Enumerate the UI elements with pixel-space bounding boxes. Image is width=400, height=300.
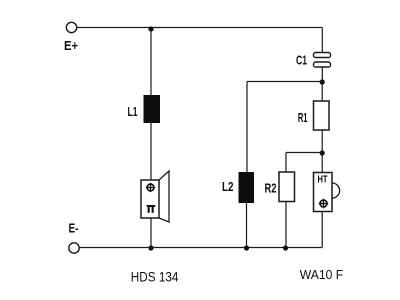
node junction R1-HT bbox=[320, 150, 325, 155]
svg-text:E-: E- bbox=[69, 223, 79, 236]
node junction L2 bottom bbox=[244, 245, 249, 250]
wire bottom rail bbox=[80, 247, 323, 249]
wire R2 bottom lead bbox=[285, 202, 287, 248]
terminal E- bbox=[69, 243, 79, 253]
wire node to R2 branch horizontal bbox=[286, 152, 322, 154]
woofer plus polarity mark bbox=[146, 183, 155, 192]
svg-text:C1: C1 bbox=[296, 54, 307, 68]
wire HT top lead bbox=[321, 153, 323, 173]
speaker tweeter HT body bbox=[314, 173, 333, 212]
wire L2 bottom lead bbox=[246, 203, 248, 248]
woofer pi mark bbox=[147, 205, 156, 213]
svg-text:L1: L1 bbox=[128, 105, 138, 119]
terminal E+ bbox=[66, 22, 76, 32]
svg-text:E+: E+ bbox=[64, 38, 78, 53]
wire L1 top lead bbox=[150, 29, 152, 95]
resistor R2 bbox=[279, 172, 295, 202]
svg-text:HT: HT bbox=[318, 173, 328, 185]
wire top rail drop to C1 bbox=[321, 28, 323, 53]
svg-text:L2: L2 bbox=[222, 181, 234, 194]
inductor L2 bbox=[239, 172, 255, 203]
svg-text:R2: R2 bbox=[265, 182, 277, 196]
speaker woofer cone bbox=[159, 171, 169, 222]
speaker woofer body bbox=[141, 180, 159, 218]
wire L2 top lead bbox=[246, 82, 248, 173]
node junction C1-R1 bbox=[320, 79, 325, 84]
wire node to L2 branch horizontal bbox=[247, 81, 322, 83]
wire R1 bottom lead bbox=[321, 130, 323, 153]
wire woofer bottom lead bbox=[150, 218, 152, 248]
capacitor C1 plate 2 bbox=[314, 62, 331, 67]
svg-text:WA10 F: WA10 F bbox=[300, 268, 344, 282]
resistor R1 bbox=[314, 101, 330, 130]
wire top rail bbox=[77, 27, 322, 29]
tweeter plus polarity mark bbox=[319, 199, 328, 208]
node junction bottom left bbox=[148, 245, 153, 250]
wire C1 bottom lead bbox=[321, 67, 323, 82]
speaker tweeter HT dome bbox=[332, 183, 340, 198]
wire L1 to woofer bbox=[150, 123, 152, 180]
inductor L1 bbox=[144, 95, 161, 123]
capacitor C1 plate 1 bbox=[314, 53, 331, 58]
svg-text:R1: R1 bbox=[298, 112, 308, 125]
svg-text:HDS 134: HDS 134 bbox=[131, 268, 179, 284]
wire R1 top lead bbox=[321, 82, 323, 101]
node junction R2 bottom bbox=[283, 245, 288, 250]
node junction top bbox=[148, 26, 153, 31]
wire HT bottom lead bbox=[321, 212, 323, 248]
wire R2 top lead bbox=[285, 153, 287, 173]
